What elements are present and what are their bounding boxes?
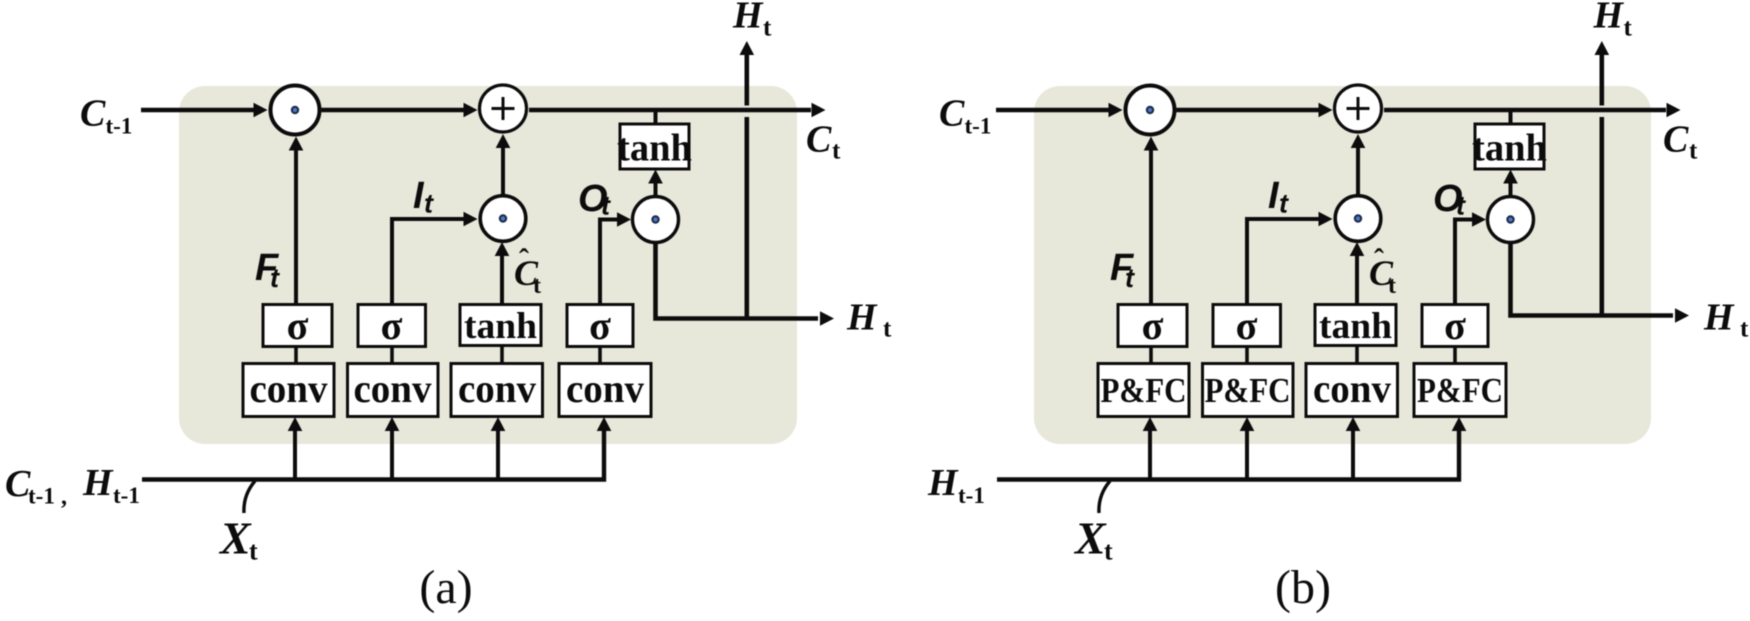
node: elementwise-multiply circle, forget gate (b) xyxy=(1126,86,1175,135)
svg-text:t: t xyxy=(1456,191,1466,221)
wire: H(t) vertical branch up (a) xyxy=(744,117,749,319)
wire: input bus with corner riser 4 (b) xyxy=(997,431,1459,480)
wire: tanh gate to lower box (a) xyxy=(500,346,504,364)
svg-text:C: C xyxy=(806,119,832,161)
wire: cell line to C(t) output arrow (b) xyxy=(1384,108,1666,113)
wire: input gate elbow I_t into multiply node (a) xyxy=(392,219,464,305)
svg-text:,: , xyxy=(61,484,67,510)
svg-text:H: H xyxy=(732,0,764,37)
svg-text:H: H xyxy=(1703,297,1735,339)
svg-text:ˆ: ˆ xyxy=(519,243,529,276)
node: elementwise-multiply circle, output gate (b) xyxy=(1488,197,1534,243)
box: output tanh (a) xyxy=(620,124,689,169)
svg-text:t: t xyxy=(601,191,611,221)
node: elementwise-multiply circle, output gate (a) xyxy=(633,197,679,243)
svg-text:conv: conv xyxy=(354,366,432,411)
wire: cell line down into output tanh box (b) xyxy=(1509,110,1513,125)
svg-text:t-1: t-1 xyxy=(28,484,55,509)
wire: sigma1 to lower box (a) xyxy=(294,347,298,364)
wire: cell line to C(t) output arrow (a) xyxy=(529,108,811,113)
wire: cell line between multiply and add (b) xyxy=(1177,108,1319,113)
svg-text:C: C xyxy=(1663,119,1689,161)
svg-text:t: t xyxy=(424,189,434,219)
svg-text:P&FC: P&FC xyxy=(1205,371,1291,410)
LSTM cell background (a) xyxy=(179,86,797,444)
wire: riser 3 from input bus (a) xyxy=(496,431,500,480)
gate box sigma 2 (b) xyxy=(1213,305,1281,347)
wire: output gate elbow O_t into multiply node (b) xyxy=(1455,220,1472,305)
wire: H(t) elbow from output multiply node (b) xyxy=(1511,243,1674,316)
box: input transform 1 (b) xyxy=(1098,364,1189,417)
svg-text:C: C xyxy=(939,93,965,135)
svg-text:conv: conv xyxy=(458,366,536,411)
wire: tanh gate to lower box (b) xyxy=(1355,346,1359,364)
wire: riser 1 from input bus (a) xyxy=(293,431,297,480)
svg-text:tanh: tanh xyxy=(464,306,537,347)
svg-text:H: H xyxy=(1593,0,1625,37)
svg-text:t: t xyxy=(1624,15,1633,42)
svg-text:t-1: t-1 xyxy=(965,114,992,139)
wire: sigma4 to lower box (b) xyxy=(1453,347,1457,364)
node: add circle (a) xyxy=(480,85,527,132)
node: elementwise-multiply circle, input gate (b) xyxy=(1335,196,1381,242)
wire: cell line down into output tanh box (a) xyxy=(654,110,658,125)
svg-text:tanh: tanh xyxy=(617,127,692,170)
svg-text:P&FC: P&FC xyxy=(1101,371,1187,410)
LSTM cell background (b) xyxy=(1034,86,1651,444)
svg-text:C: C xyxy=(80,93,106,135)
svg-text:P&FC: P&FC xyxy=(1417,371,1503,410)
wire: multiply node up into add node (a) xyxy=(501,148,505,194)
wire: sigma2 to lower box (a) xyxy=(390,347,394,364)
svg-text:t: t xyxy=(270,263,280,293)
node: elementwise-multiply circle, forget gate (a) xyxy=(271,86,320,135)
svg-text:σ: σ xyxy=(1142,303,1164,348)
wire: input bus with corner riser 4 (a) xyxy=(142,431,604,480)
gate box sigma 1 (a) xyxy=(263,305,332,347)
svg-text:conv: conv xyxy=(1313,366,1391,411)
node: add circle (b) xyxy=(1335,85,1382,132)
wire: cell line between multiply and add (a) xyxy=(322,108,464,113)
svg-text:σ: σ xyxy=(1236,303,1258,348)
svg-text:t: t xyxy=(883,316,892,343)
svg-text:X: X xyxy=(218,513,252,564)
wire: multiply node up into output tanh (b) xyxy=(1509,183,1513,196)
gate box sigma 4 (b) xyxy=(1422,305,1488,347)
svg-text:conv: conv xyxy=(566,366,644,411)
wire: tanh gate up into multiply node (b) xyxy=(1355,256,1359,305)
svg-text:(a): (a) xyxy=(419,561,472,614)
gate box tanh (b) xyxy=(1315,305,1396,346)
svg-text:ˆ: ˆ xyxy=(1374,243,1384,276)
svg-text:tanh: tanh xyxy=(1472,127,1547,170)
svg-text:H: H xyxy=(846,297,878,339)
gate box sigma 1 (b) xyxy=(1118,305,1187,347)
box: input transform 4 (a) xyxy=(559,364,651,417)
wire: riser 1 from input bus (b) xyxy=(1148,431,1152,480)
wire: C(t-1) input segment (a) xyxy=(141,108,254,113)
node: elementwise-multiply circle, input gate (a) xyxy=(480,196,526,242)
wire: riser 2 from input bus (a) xyxy=(390,431,394,480)
svg-text:tanh: tanh xyxy=(1319,306,1392,347)
svg-text:(b): (b) xyxy=(1275,561,1331,614)
wire: input gate elbow I_t into multiply node (b) xyxy=(1247,219,1319,305)
wire: output gate elbow O_t into multiply node (a) xyxy=(600,220,617,305)
svg-text:σ: σ xyxy=(589,303,611,348)
svg-text:H: H xyxy=(927,462,959,504)
wire: multiply node up into output tanh (a) xyxy=(654,183,658,196)
svg-text:t: t xyxy=(1279,189,1289,219)
wire: sigma2 to lower box (b) xyxy=(1245,347,1249,364)
svg-text:t: t xyxy=(1689,138,1698,165)
box: input transform 2 (b) xyxy=(1203,364,1294,417)
wire: H(t) elbow from output multiply node (a) xyxy=(656,243,819,319)
box: input transform 3 conv (b) xyxy=(1306,364,1398,417)
wire: C(t-1) input segment (b) xyxy=(996,108,1109,113)
svg-text:t: t xyxy=(1740,316,1749,343)
svg-text:t: t xyxy=(1104,537,1113,566)
svg-text:σ: σ xyxy=(287,303,309,348)
wire: forget gate arrow up into multiply node (b) xyxy=(1149,151,1153,305)
wire: riser 3 from input bus (b) xyxy=(1351,431,1355,480)
box: input transform 2 (a) xyxy=(348,364,439,417)
wire: X_t branch tick mark (a) xyxy=(244,481,255,513)
box: input transform 4 (b) xyxy=(1414,364,1506,417)
svg-text:σ: σ xyxy=(381,303,403,348)
gate box sigma 2 (a) xyxy=(358,305,426,347)
svg-text:t: t xyxy=(1125,263,1135,293)
svg-text:H: H xyxy=(82,462,114,504)
svg-text:σ: σ xyxy=(1444,303,1466,348)
svg-text:t-1: t-1 xyxy=(958,483,985,508)
wire: sigma4 to lower box (a) xyxy=(598,347,602,364)
wire: multiply node up into add node (b) xyxy=(1356,148,1360,194)
gate box sigma 4 (a) xyxy=(567,305,633,347)
wire: H(t) vertical branch up (b) xyxy=(1600,117,1605,316)
svg-text:t: t xyxy=(249,537,258,566)
wire: tanh gate up into multiply node (a) xyxy=(500,256,504,305)
box: input transform 1 (a) xyxy=(243,364,334,417)
wire: sigma1 to lower box (b) xyxy=(1149,347,1153,364)
wire: X_t branch tick mark (b) xyxy=(1099,481,1110,513)
svg-text:X: X xyxy=(1073,513,1107,564)
svg-text:conv: conv xyxy=(250,366,328,411)
box: output tanh (b) xyxy=(1475,124,1544,169)
box: input transform 3 conv (a) xyxy=(451,364,543,417)
wire: forget gate arrow up into multiply node (a) xyxy=(294,151,298,305)
svg-text:t: t xyxy=(763,15,772,42)
gate box tanh (a) xyxy=(460,305,541,346)
svg-text:t: t xyxy=(533,273,541,299)
wire: riser 2 from input bus (b) xyxy=(1245,431,1249,480)
svg-text:t-1: t-1 xyxy=(113,483,140,508)
svg-text:t: t xyxy=(832,138,841,165)
svg-text:t-1: t-1 xyxy=(106,114,133,139)
svg-text:t: t xyxy=(1388,273,1396,299)
